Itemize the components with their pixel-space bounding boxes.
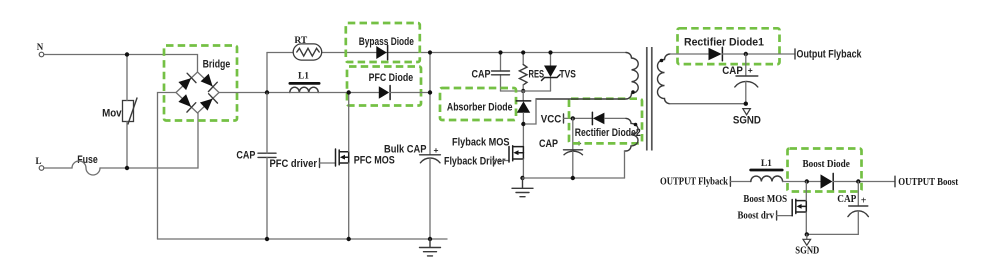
junction PFC drain / main line	[347, 90, 351, 94]
polarity dot secondary	[660, 59, 664, 63]
svg-text:N: N	[37, 42, 44, 52]
junction boost MOS drain node	[805, 179, 809, 183]
TVS diode	[542, 53, 576, 92]
svg-text:CAP: CAP	[837, 194, 857, 205]
bridge diode D-BR	[200, 94, 218, 111]
transistor Flyback MOS	[509, 146, 523, 162]
transistor Boost MOS	[792, 199, 806, 216]
svg-text:CAP: CAP	[472, 68, 491, 80]
wire primary return to drain node	[525, 100, 536, 125]
capacitor CAP (snubber)	[472, 68, 510, 80]
wire snubber bottom node	[501, 90, 551, 92]
junction snubber cap top	[498, 50, 502, 54]
svg-text:VCC: VCC	[541, 113, 562, 125]
wire output flyback to L1	[730, 181, 751, 183]
diode Rectifier Diode1	[684, 37, 764, 61]
junction out cap top	[744, 52, 748, 56]
polarity dot primary	[631, 90, 635, 94]
diode Absorber	[447, 91, 531, 147]
svg-text:Boost drv: Boost drv	[738, 211, 775, 222]
svg-text:SGND: SGND	[795, 246, 819, 257]
svg-text:Flyback MOS: Flyback MOS	[452, 137, 510, 149]
inductor L1 boost	[749, 159, 783, 181]
junction bypass line / bulk branch	[428, 50, 432, 54]
bridge diode D-BL	[178, 94, 195, 112]
junction boost cap top	[856, 179, 860, 183]
svg-text:+: +	[748, 65, 753, 75]
diode Bypass	[359, 36, 414, 60]
svg-text:CAP: CAP	[539, 138, 558, 150]
wire secondary top to diode1	[670, 53, 708, 55]
junction boost source / SGND	[805, 232, 809, 236]
wire aux return down	[624, 151, 626, 178]
ground SGND (boost)	[795, 234, 819, 256]
wire bulk cap to rail	[429, 158, 431, 239]
wire boost bottom	[806, 233, 858, 235]
svg-text:RES: RES	[529, 68, 545, 80]
svg-text:L: L	[35, 156, 41, 166]
label PFC driver with tick	[270, 158, 320, 170]
junction PFC line / bulk branch	[428, 90, 432, 94]
svg-text:PFC driver: PFC driver	[270, 158, 318, 170]
bridge rectifier	[176, 58, 230, 113]
svg-text:Bulk CAP: Bulk CAP	[384, 143, 427, 155]
svg-text:+: +	[861, 196, 867, 207]
wire boost drain up	[805, 182, 807, 201]
resistor RES	[519, 53, 544, 92]
bridge diode D-TL	[178, 73, 196, 90]
highlight box Rectifier Diode2	[569, 99, 642, 144]
label VCC with tick	[541, 113, 564, 125]
svg-text:SGND: SGND	[733, 115, 761, 127]
svg-text:L1: L1	[298, 72, 309, 82]
svg-text:L1: L1	[761, 159, 772, 169]
wire secondary bottom line	[670, 103, 746, 105]
label Output Flyback with tick	[795, 48, 862, 60]
svg-text:+: +	[434, 145, 439, 155]
svg-text:TVS: TVS	[560, 68, 576, 80]
svg-text:Boost Diode: Boost Diode	[803, 159, 851, 170]
diode PFC	[369, 72, 414, 99]
junction cap bottom rail	[265, 237, 269, 241]
wire flyback gate	[494, 160, 510, 162]
junction Mov-N	[125, 52, 129, 56]
label Boost drv with tick	[738, 211, 777, 222]
svg-text:Fuse: Fuse	[77, 154, 98, 166]
svg-text:OUTPUT Flyback: OUTPUT Flyback	[660, 177, 728, 188]
wire VCC tick to node	[564, 117, 593, 119]
bridge diode D-TR	[201, 74, 218, 92]
transformer T1 primary winding	[536, 53, 638, 99]
svg-text:Boost MOS: Boost MOS	[743, 194, 787, 205]
svg-text:PFC Diode: PFC Diode	[369, 72, 414, 84]
svg-text:PFC MOS: PFC MOS	[354, 154, 395, 166]
wire cap branch upper	[266, 93, 268, 153]
junction VCC cap / gnd node	[571, 176, 575, 180]
wire PFC MOS source down	[348, 163, 350, 239]
junction RES bottom node	[521, 89, 525, 93]
label OUTPUT Boost with tick	[895, 176, 959, 188]
highlight box Absorber Diode	[440, 88, 516, 120]
wire bulk branch vertical	[429, 53, 431, 155]
wire top line y53	[267, 52, 626, 54]
transistor PFC MOS	[336, 149, 395, 166]
wire PFC gate	[320, 162, 336, 164]
transformer T1 core	[647, 47, 652, 151]
ground primary (earth)	[420, 239, 441, 256]
inductor L1 main	[289, 72, 321, 93]
junction PFC source / rail	[347, 237, 351, 241]
highlight box Bypass Diode	[346, 23, 420, 62]
wire fuse to bridge bottom	[100, 113, 198, 168]
highlight box Rectifier Diode1	[678, 28, 780, 64]
highlight box Bridge	[164, 46, 237, 121]
capacitor CAP (VCC, polarized)	[539, 118, 583, 178]
junction flyback source / gnd node	[520, 176, 524, 180]
label Flyback Driver with tick	[444, 156, 506, 168]
capacitor CAP (output flyback, polarized)	[722, 54, 758, 104]
svg-text:Rectifier Diode2: Rectifier Diode2	[575, 127, 641, 139]
wire bridge right vertex to main line	[219, 92, 290, 94]
transformer T1 aux winding	[625, 118, 639, 151]
junction RT branch / main line	[265, 90, 269, 94]
wire cap branch lower	[266, 157, 268, 239]
ground SGND (flyback secondary)	[733, 109, 761, 127]
transformer T1 secondary winding	[658, 54, 671, 104]
wire diode1 to output tick	[722, 53, 795, 55]
svg-text:Bridge: Bridge	[203, 58, 231, 70]
wire bottom rail	[158, 238, 448, 240]
junction VCC node	[571, 116, 575, 120]
wire boost source down	[805, 212, 807, 234]
highlight box PFC Diode	[347, 67, 421, 106]
svg-text:Flyback Driver: Flyback Driver	[444, 156, 506, 168]
svg-text:OUTPUT Boost: OUTPUT Boost	[898, 177, 958, 188]
wire Mov bottom	[126, 122, 128, 169]
wire N line to bridge top	[44, 55, 198, 73]
svg-text:Absorber Diode: Absorber Diode	[447, 102, 513, 114]
ground flyback (earth)	[512, 178, 533, 197]
wire boost diode to output	[833, 181, 895, 183]
wire snubber cap branch	[500, 53, 502, 92]
junction Mov-fuse	[125, 166, 129, 170]
terminal N	[37, 42, 44, 57]
terminal L	[35, 156, 43, 170]
svg-text:Bypass Diode: Bypass Diode	[359, 36, 414, 48]
label OUTPUT Flyback with tick	[660, 177, 730, 188]
wire bridge left vertex to bottom rail	[158, 93, 177, 240]
wire PFC diode to x430	[390, 92, 430, 94]
svg-text:Mov: Mov	[102, 108, 122, 120]
svg-text:Rectifier Diode1: Rectifier Diode1	[684, 37, 764, 49]
wire primary gnd node line	[523, 177, 625, 179]
junction secondary bottom / SGND	[744, 102, 748, 106]
wire L1 to boost diode	[783, 181, 821, 183]
svg-text:Output Flyback: Output Flyback	[797, 48, 863, 60]
svg-text:CAP: CAP	[722, 65, 743, 77]
wire PFC MOS drain up	[348, 93, 350, 152]
thermistor RT	[293, 36, 322, 60]
junction TVS top	[548, 50, 552, 54]
polarity dot aux	[634, 123, 638, 127]
junction primary-return / drain node	[521, 122, 525, 126]
wire RT branch vertical	[266, 53, 268, 94]
fuse F1	[44, 154, 100, 175]
junction RES top	[521, 50, 525, 54]
varistor Mov	[102, 98, 137, 124]
wire boost gate	[777, 215, 793, 217]
highlight box Boost Diode	[788, 149, 862, 192]
junction bulk / rail	[428, 237, 432, 241]
capacitor CAP (boost, polarized)	[837, 182, 868, 235]
diode Boost	[803, 159, 851, 190]
wire flyback source down	[522, 159, 524, 178]
wire diode2 anode to aux winding	[604, 117, 626, 119]
wire Mov top	[126, 55, 128, 101]
capacitor CAP (PFC input)	[236, 149, 276, 161]
capacitor Bulk CAP (polarized)	[384, 143, 440, 163]
wire main line L1 to PFC diode	[290, 92, 379, 94]
svg-text:CAP: CAP	[236, 149, 255, 161]
diode Rectifier Diode2	[575, 112, 641, 139]
